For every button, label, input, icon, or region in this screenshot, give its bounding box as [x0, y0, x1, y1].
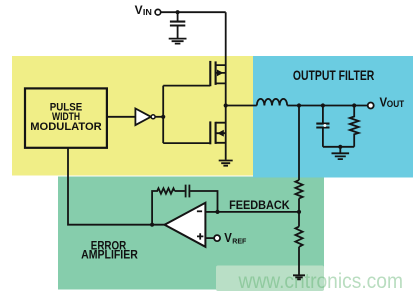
wire PWM to inverter	[107, 116, 135, 118]
wire upper gate	[163, 85, 210, 87]
wire switch to inductor	[226, 105, 257, 107]
wire plus input	[205, 237, 214, 239]
node output ground	[338, 145, 342, 149]
svg-text:IN: IN	[143, 8, 152, 17]
compensation resistor Rc	[152, 188, 175, 224]
wire drain column	[225, 12, 227, 105]
transistor Q1 upper PMOS	[210, 61, 225, 86]
inductor L1	[257, 99, 287, 106]
resistor divider R2	[295, 227, 302, 247]
resistor load R_L	[350, 106, 359, 147]
minus input marker	[197, 210, 202, 212]
svg-text:OUTPUT FILTER: OUTPUT FILTER	[293, 67, 374, 83]
node feedback tap	[297, 103, 301, 107]
yellow region PWM background	[12, 56, 253, 176]
node input cap tap	[176, 10, 180, 14]
wire bubble to gate bus	[155, 116, 163, 118]
op-amp U2 error amplifier	[165, 203, 206, 247]
blue region output filter background	[253, 56, 413, 178]
svg-text:OUT: OUT	[387, 99, 405, 109]
inverter buffer	[135, 109, 151, 126]
wire R2 to ground	[298, 247, 300, 275]
ground output filter	[332, 147, 350, 159]
svg-text:AMPLIFIER: AMPLIFIER	[81, 249, 138, 262]
transistor Q2 lower NMOS	[210, 121, 225, 144]
node feedback junction	[297, 210, 301, 214]
label ERROR AMPLIFIER	[81, 240, 138, 262]
wire feedback column upper	[298, 106, 300, 181]
PWM box U1	[25, 88, 107, 147]
compensation capacitor Cc	[175, 185, 218, 212]
wire VIN horizontal	[161, 11, 226, 13]
wire minus input	[205, 211, 217, 213]
green region error amplifier background	[58, 177, 324, 290]
label VIN	[135, 5, 152, 17]
resistor divider R1	[295, 180, 302, 198]
svg-text:MODULATOR: MODULATOR	[30, 121, 102, 133]
label VREF	[224, 230, 246, 245]
wire op-amp output loop to PWM	[68, 148, 165, 225]
wire lower gate	[163, 142, 210, 144]
capacitor C_out	[316, 106, 329, 147]
capacitor C_in	[170, 12, 185, 38]
wire source to ground	[225, 106, 227, 160]
svg-text:www.cntronics.com: www.cntronics.com	[238, 270, 403, 293]
terminal VREF	[214, 235, 220, 241]
ground divider	[293, 275, 305, 279]
PWM label	[30, 102, 102, 133]
svg-text:V: V	[224, 230, 232, 245]
ground input cap	[169, 39, 187, 44]
wire inductor to VOUT	[287, 105, 367, 107]
node minus input	[215, 210, 219, 214]
wire R1 to node	[298, 198, 300, 226]
terminal VIN	[155, 9, 161, 15]
watermark band	[216, 266, 324, 292]
wire gate bus vertical	[162, 86, 164, 144]
node load res tap	[352, 103, 356, 107]
plus input marker	[197, 233, 203, 239]
node output cap tap	[321, 103, 325, 107]
wire feedback to op-amp	[218, 211, 300, 213]
svg-text:V: V	[135, 5, 143, 17]
ground lower MOSFET	[219, 161, 233, 166]
wire output bottom	[323, 146, 354, 148]
capacitor polarity mark	[323, 124, 326, 127]
label VOUT	[380, 96, 405, 110]
terminal VOUT	[368, 103, 374, 109]
node compensation tap	[150, 223, 154, 227]
svg-text:REF: REF	[232, 236, 247, 245]
svg-text:FEEDBACK: FEEDBACK	[229, 198, 290, 212]
node gate bus	[161, 115, 165, 119]
node switch	[224, 103, 228, 107]
inverter bubble	[151, 115, 155, 119]
